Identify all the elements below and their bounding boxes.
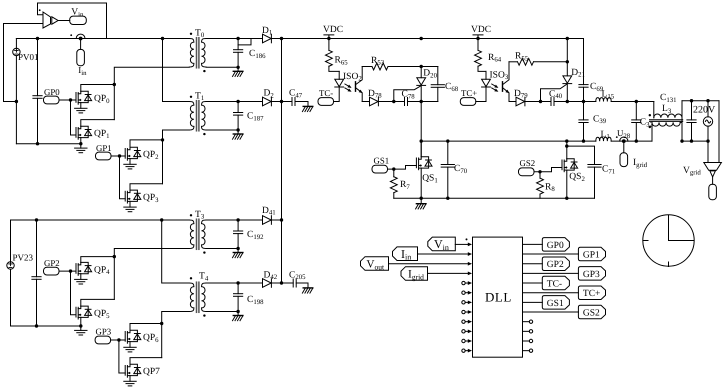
pin DLL left input 11 — [462, 339, 465, 342]
wire QP7 source — [129, 376, 131, 382]
ground QP1 source — [80, 144, 82, 148]
wire D79 to C40 node — [525, 101, 551, 103]
capacitor input bulk cap on PV01 — [37, 39, 39, 96]
snubber loop on T0 secondary — [238, 39, 251, 45]
diode D78 — [362, 101, 369, 103]
optocoupler ISO2 phototransistor — [355, 82, 357, 91]
net label GS2 from DLL — [523, 311, 579, 313]
capacitor C78 — [405, 98, 408, 106]
capacitor C198 — [237, 283, 239, 294]
transistor QP1 — [76, 126, 92, 139]
net label GP1 from DLL — [523, 253, 579, 255]
current sensor U28 — [611, 140, 652, 142]
resistor R53 — [362, 66, 372, 68]
net label I_in to DLL — [393, 247, 418, 261]
wire T4 primary return bus — [162, 312, 190, 358]
wire QS2 drain — [566, 141, 568, 159]
net label I_grid to DLL — [401, 267, 428, 281]
net label I_grid sensor box — [620, 153, 628, 167]
svg-text:GP1: GP1 — [583, 250, 600, 260]
ground T0 secondary — [237, 67, 239, 71]
pin DLL right auxiliary 11 — [523, 340, 530, 342]
current sensor I_in — [76, 34, 85, 38]
svg-text:GP3: GP3 — [96, 327, 112, 337]
capacitor C187 — [237, 102, 239, 113]
resistor R64 — [477, 39, 479, 51]
optocoupler ISO2 LED — [338, 71, 340, 79]
diode D41 — [263, 216, 272, 225]
ground QP0 source — [75, 108, 87, 113]
optocoupler ISO3 LED — [485, 71, 487, 79]
resistor R55 — [509, 61, 518, 63]
capacitor C47 — [292, 98, 295, 106]
wire L15 to L3 — [611, 101, 654, 103]
wire QP5 drain — [81, 299, 115, 306]
net label V_in to DLL — [428, 237, 456, 251]
wire T0 primary return bus — [114, 67, 189, 119]
wire GP1 to QP2 gate — [111, 155, 125, 157]
net label V_out to DLL — [361, 257, 389, 271]
diode D1 — [263, 34, 272, 43]
ground QS1 source — [420, 198, 422, 204]
transistor QP6 — [125, 330, 141, 343]
net label I_in sensor box — [77, 49, 85, 65]
svg-text:DLL: DLL — [485, 290, 512, 305]
wire D1 to VDC rail — [271, 38, 583, 40]
wire GP0 to QP0 gate — [59, 99, 76, 101]
wire C205 to ground — [296, 283, 308, 288]
wire T1 secondary top — [206, 101, 262, 103]
capacitor C205 — [293, 279, 296, 287]
wire QS1 drain — [420, 141, 422, 157]
capacitor C186 — [237, 39, 239, 50]
svg-text:GP0: GP0 — [547, 241, 564, 251]
wire C47 to ground — [295, 102, 308, 107]
transistor QP5 — [76, 306, 92, 319]
ground T1 secondary — [237, 130, 239, 134]
svg-text:GS2: GS2 — [520, 158, 536, 168]
wire amp lower input — [4, 23, 44, 25]
ground T4 secondary — [237, 312, 239, 316]
wire V_grid sense taps — [707, 141, 709, 162]
wire TC+ to ISO3 LED — [476, 87, 486, 102]
net label GS1 from DLL — [523, 301, 543, 303]
diode D42 — [263, 279, 272, 288]
wire bus to C47 — [282, 101, 293, 103]
wire C40 to bus — [554, 101, 567, 103]
transformer T0 — [189, 38, 206, 68]
capacitor C32 — [635, 102, 637, 120]
wire GP3 to QP7 gate — [119, 340, 125, 373]
wire QP6 source — [129, 342, 131, 348]
ground after C205 — [302, 288, 312, 293]
svg-text:GS2: GS2 — [583, 308, 600, 318]
svg-text:GP1: GP1 — [96, 143, 112, 153]
thyristor D20 — [420, 67, 422, 78]
wire D41 to bus — [271, 219, 281, 221]
wire QP0 drain — [81, 85, 115, 92]
wire grid top rail — [682, 100, 719, 102]
ground T3 secondary — [237, 249, 239, 253]
AC grid source 220V — [707, 101, 709, 117]
wire bottom negative rail y=325.5 — [11, 325, 81, 327]
thyristor D21 — [566, 39, 568, 76]
wire I_in to DLL input — [418, 253, 469, 255]
wire V_in to DLL input — [455, 243, 468, 245]
transistor QS1 — [416, 157, 432, 170]
ground QP5 source — [80, 326, 82, 330]
capacitor C71 — [588, 165, 601, 168]
wire D78 to C78 node — [378, 101, 404, 103]
wire GS2 to QS2 gate — [534, 168, 562, 172]
solar panel source PV01 — [13, 48, 20, 55]
ground QP3 source — [124, 207, 136, 212]
solar panel source PV23 — [7, 262, 14, 269]
wire DC link vertical bus — [281, 39, 283, 284]
wire T1 primary return bus — [163, 130, 190, 184]
wire T3 secondary top — [206, 219, 262, 221]
wire I_in sensor lead — [80, 40, 82, 49]
wire QS2 to C71 stub — [567, 146, 595, 164]
transistor QP4 — [76, 262, 92, 275]
pin DLL left input 8 — [462, 310, 465, 313]
wire DC bus to QS1 — [420, 102, 422, 157]
wire C68 bottom rail — [421, 101, 438, 103]
wire T1 primary feed — [163, 39, 190, 102]
pin DLL left input 7 — [462, 301, 465, 304]
wire QP1 drain — [81, 120, 115, 127]
capacitor C131 — [691, 101, 693, 120]
optocoupler ISO3 phototransistor — [502, 82, 504, 91]
pin DLL left input 12 — [462, 349, 465, 352]
wire GP1 to QP3 gate — [120, 156, 126, 199]
wire T3 primary return bus — [114, 249, 189, 300]
svg-text:VDC: VDC — [323, 25, 343, 35]
wire QS2 source — [566, 170, 568, 198]
svg-text:GS1: GS1 — [547, 299, 564, 309]
capacitor C69 — [583, 39, 585, 85]
wire amp output — [58, 20, 70, 22]
wire QP2 source — [129, 159, 131, 165]
wire QP4 source — [80, 274, 82, 280]
net label TC+ from DLL — [523, 292, 579, 294]
ground QP2 source — [124, 164, 136, 169]
resistor R65 — [328, 39, 330, 51]
svg-text:220V: 220V — [693, 104, 716, 115]
capacitor C40 — [551, 98, 554, 106]
transformer T4 — [189, 282, 206, 312]
svg-text:TC+: TC+ — [461, 88, 477, 98]
wire T4 secondary bottom — [206, 311, 238, 313]
transistor QP3 — [125, 190, 141, 203]
wire PV23 top lead — [10, 220, 12, 262]
wire TC- to ISO2 LED — [334, 87, 340, 102]
wire QP3 drain — [130, 184, 163, 190]
ground QP4 source — [75, 279, 87, 284]
svg-text:TC+: TC+ — [583, 289, 601, 299]
transformer T3 — [189, 219, 206, 249]
filter inductor L3 — [653, 102, 655, 118]
wire mid rail with junctions — [567, 101, 596, 103]
wire PV01 top lead — [15, 39, 17, 49]
controller block DLL — [473, 237, 523, 357]
pin DLL right auxiliary 10 — [523, 330, 530, 332]
wire V_in sense loop — [38, 3, 107, 39]
svg-text:GS1: GS1 — [374, 156, 390, 166]
ground QP7 source — [124, 381, 136, 386]
clock symbol — [643, 215, 694, 266]
resistor R8 — [539, 172, 541, 178]
wire GS1 to QS1 gate — [388, 166, 417, 170]
wire QP3 source — [129, 201, 131, 207]
ground after C47 — [302, 106, 312, 111]
wire PV01 bottom lead — [15, 56, 17, 144]
net label GP1 — [96, 152, 112, 160]
wire I_grid to DLL input — [428, 272, 469, 274]
wire QP6 drain — [130, 324, 162, 331]
optocoupler ISO3 light arrows — [492, 84, 497, 91]
wire L3 right vertical — [681, 101, 683, 141]
capacitor C68 — [437, 67, 439, 85]
transformer T1 — [189, 101, 206, 131]
wire T1 secondary bottom — [206, 129, 238, 131]
capacitor C70 — [447, 141, 449, 164]
svg-text:GP2: GP2 — [44, 258, 60, 268]
svg-text:GP2: GP2 — [547, 260, 564, 270]
svg-text:TC-: TC- — [319, 88, 333, 98]
wire PV01 negative rail — [16, 143, 80, 145]
capacitor C192 — [237, 220, 239, 231]
wire T4 secondary top — [206, 282, 262, 284]
svg-text:PV23: PV23 — [13, 253, 34, 263]
diode D2 — [263, 97, 272, 106]
wire grid bottom rail — [682, 140, 708, 142]
junction dots on positive rail — [36, 37, 39, 40]
diode D79 — [509, 101, 516, 103]
net label GP3 from DLL — [523, 272, 579, 274]
optocoupler ISO2 light arrows — [345, 84, 350, 91]
wire T0 secondary top — [206, 38, 262, 40]
wire D2 to DC bus node — [271, 101, 281, 103]
transistor QP0 — [76, 91, 92, 104]
wire GP0 to QP1 gate — [71, 100, 77, 135]
pin DLL left input 10 — [462, 330, 465, 333]
wire D42 to C205 — [271, 282, 293, 284]
svg-text:GP3: GP3 — [583, 270, 600, 280]
capacitor C39 — [583, 102, 585, 120]
transistor QP2 — [125, 147, 141, 160]
resistor R7 — [393, 169, 395, 177]
wire GP2 to QP5 gate — [71, 271, 77, 315]
wire QS1 source — [420, 168, 422, 198]
wire T3 secondary bottom — [206, 248, 238, 250]
pin DLL left input 6 — [462, 291, 465, 294]
net label V_grid sensor box — [712, 177, 714, 184]
net label GP2 — [44, 267, 60, 275]
op-amp voltage sensor amplifier — [43, 12, 51, 28]
op-amp V_grid sensor — [704, 163, 722, 171]
transistor QS2 — [562, 159, 578, 172]
capacitor bulk cap on PV23 — [36, 220, 38, 277]
wire snubber ground rail y=197.7 — [394, 197, 595, 199]
wire T4 primary feed — [162, 220, 190, 283]
pin DLL right auxiliary 9 — [523, 321, 530, 323]
wire QP7 drain — [130, 358, 162, 365]
net label GP3 — [95, 336, 111, 344]
svg-text:QP7: QP7 — [143, 367, 160, 377]
net label GP0 — [44, 96, 60, 104]
net label TC- from DLL — [523, 282, 543, 284]
wire GP3 to QP6 gate — [111, 339, 126, 341]
wire main positive rail y=38 — [16, 38, 189, 40]
wire V_out to DLL input — [389, 263, 469, 265]
wire T0 secondary bottom — [206, 66, 238, 68]
wire bottom positive rail y=219.5 — [11, 219, 190, 221]
wire QP2 drain — [130, 140, 163, 147]
transistor QP7 — [125, 364, 141, 377]
net label GP2 from DLL — [523, 263, 543, 265]
node sense polarity dot — [39, 9, 41, 11]
pin DLL right auxiliary 12 — [523, 350, 530, 352]
wire QP4 drain — [81, 257, 115, 263]
net label GP0 from DLL — [523, 243, 543, 245]
wire snubber rail y=140.6 — [421, 140, 596, 142]
wire C78 to bus — [408, 101, 422, 103]
pin DLL left input 9 — [462, 320, 465, 323]
wire GP2 to QP4 gate — [59, 270, 76, 272]
wire U28 to I_grid box — [623, 143, 625, 153]
svg-text:PV01: PV01 — [18, 52, 39, 62]
wire QP1 source — [80, 138, 82, 144]
ground QP6 source — [124, 347, 136, 352]
inductor L15 — [596, 98, 611, 102]
inductor L1 — [596, 137, 611, 141]
svg-text:GP0: GP0 — [44, 87, 60, 97]
pin DLL left input 5 — [462, 281, 465, 284]
wire QP0 source — [80, 103, 82, 109]
svg-text:VDC: VDC — [471, 25, 491, 35]
net label V_in sensor box — [70, 16, 87, 24]
wire QP5 source — [80, 317, 82, 326]
wire PV23 bottom lead — [10, 269, 12, 326]
svg-text:TC-: TC- — [547, 279, 562, 289]
wire voltage sense tap — [4, 24, 17, 102]
